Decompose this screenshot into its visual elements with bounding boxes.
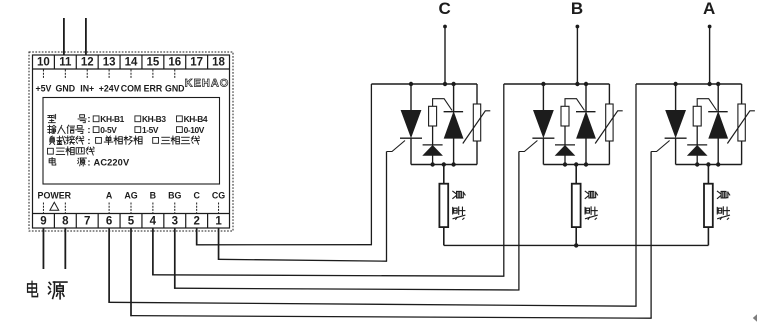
terminal box divider top 6 [163,55,165,69]
node bottom rail load B [574,162,578,166]
svg-text:GND: GND [56,83,76,93]
wire neutral bus joining three loads [444,244,709,246]
node top rail SCR1 anode B [541,82,545,86]
gate lead SCR2 phase A + gate network link [697,99,717,111]
svg-text:10: 10 [37,57,50,69]
node top rail SCR2 cathode A [716,82,720,86]
svg-text:11: 11 [59,57,72,69]
node bottom rail diode B [563,162,567,166]
terminal box divider top 2 [75,55,77,69]
terminal box divider bottom 6 [163,214,165,229]
svg-text:KH-B4: KH-B4 [184,114,208,124]
terminal box divider bottom 8 [207,214,209,229]
gate pin tick terminal 5 [130,203,132,214]
wire terminal 1 CG to gate of phase C [218,228,220,260]
wire top rail phase C [371,83,477,85]
terminal box divider bottom 2 [75,214,77,229]
pin tick terminal 11 [64,70,66,79]
wire phase sense A (top rail to terminal) [635,84,637,306]
wire stub into terminal 12 (IN+) [85,18,87,55]
wire terminal 5 AG to gate of phase A [130,228,132,316]
svg-text:A: A [106,191,113,201]
svg-text:AC220V: AC220V [94,157,130,167]
svg-text:ERR: ERR [144,83,163,93]
phase B feed terminal dot [576,25,580,29]
wire phase sense C (top rail to terminal) [370,84,372,245]
svg-text:IN+: IN+ [80,83,94,93]
wire terminal 9 to supply [42,228,44,269]
wire terminal 4 B to phase B sense [152,228,154,275]
power pin tick terminal 9 [42,203,44,214]
node top rail SCR2 cathode B [584,82,588,86]
svg-text:KH-B1: KH-B1 [100,114,124,124]
svg-text::: : [87,114,90,125]
svg-text:14: 14 [125,57,138,69]
terminal box divider bottom 3 [97,214,99,229]
resistor gate network phase C [429,106,437,126]
varistor diagonal stroke A [727,111,755,144]
gate pin tick terminal 6 [108,203,110,214]
svg-text:6: 6 [106,216,112,228]
spec line5: supply 电源 AC220V [49,157,56,165]
varistor phase C [476,84,478,104]
terminal box divider bottom 7 [185,214,187,229]
diode gate network phase A (cathode bar up) [687,144,707,146]
svg-text:B: B [571,0,583,18]
svg-text:9: 9 [40,216,46,228]
gate lead SCR1 phase C [387,141,406,152]
gate pin tick terminal 2 [196,203,198,214]
wire load takeoff B [575,165,577,184]
wire terminal 8 to supply [64,228,66,269]
pin tick terminal 12 [86,70,88,79]
svg-text:15: 15 [146,57,159,69]
phase A feed terminal dot [708,25,712,29]
svg-text:+5V: +5V [35,83,51,93]
svg-text:1: 1 [215,216,222,228]
load resistor 负载 phase A [704,184,713,227]
svg-text:8: 8 [62,216,69,228]
spec line3: load wiring 负载接线 单相移相 三相三线 [50,136,55,144]
dashed enclosure border of trigger module [29,52,233,231]
svg-text:1-5V: 1-5V [142,125,159,135]
svg-text:5: 5 [128,216,135,228]
bottom terminal strip divider line [33,213,230,215]
node top rail SCR1 anode C [409,82,413,86]
diode gate network phase C (cathode bar up) [423,144,443,146]
node neutral bus phase B [574,243,578,247]
load label 负载 phase A [717,191,729,219]
svg-text::: : [87,157,90,168]
wire terminal 3 BG to gate of phase B [174,228,176,289]
small cursor arrow artifact [753,314,757,322]
terminal box divider bottom 5 [141,214,143,229]
svg-text::: : [87,136,90,147]
node bottom rail load C [442,162,446,166]
load label 负载 phase C [453,191,465,219]
svg-text:16: 16 [168,57,181,69]
node bottom rail diode A [695,162,699,166]
svg-text:+24V: +24V [99,83,120,93]
svg-text:18: 18 [212,57,225,69]
wire phase sense B (top rail to terminal) [503,84,505,276]
spec line4: 三相四线 [48,148,54,154]
terminal box divider top 8 [207,55,209,69]
varistor diagonal stroke C [463,111,491,144]
wire phase C feed [444,27,446,85]
wire top rail phase A [636,83,742,85]
wire top rail phase B [504,83,610,85]
pin tick terminal 16 [174,70,176,79]
svg-text:KEHAO: KEHAO [185,78,230,90]
svg-text:COM: COM [121,83,142,93]
svg-text:12: 12 [81,57,94,69]
thyristor SCR2 phase C (reverse, pointing up) [453,84,455,112]
wire bottom rail phase B [543,164,609,166]
wire resistor to diode C [432,126,434,145]
wire bottom rail phase C [411,164,477,166]
svg-text:CG: CG [212,191,225,201]
pin tick terminal 10 [42,70,44,79]
thyristor SCR1 phase B (forward, pointing down) [542,84,544,110]
top terminal strip divider line [33,68,230,70]
svg-text:KH-B3: KH-B3 [142,114,166,124]
svg-text:BG: BG [168,191,181,201]
gate lead SCR2 phase B + gate network link [565,99,585,111]
node bottom rail SCR2 anode B [584,162,588,166]
gate lead SCR1 phase B [519,141,538,152]
wire gate B to terminal [518,152,520,291]
svg-text:AG: AG [124,191,137,201]
svg-text:17: 17 [190,57,203,69]
thyristor SCR1 phase C (forward, pointing down) [410,84,412,110]
wire resistor to diode A [696,126,698,145]
gate pin tick terminal 3 [174,203,176,214]
spec line1: model 型号 KH-B1/B3/B4 [48,114,56,122]
gate lead SCR1 phase A [651,141,670,152]
resistor gate network phase A [693,106,701,126]
gate pin tick terminal 4 [152,203,154,214]
svg-text:B: B [150,191,156,201]
specification text box [43,98,220,185]
trigger module body outline [33,55,230,228]
load label 负载 phase B [585,191,597,219]
wire terminal 2 C to phase C sense [196,228,198,245]
wire gate A to terminal [650,152,652,319]
warning triangle symbol [50,202,59,210]
terminal box divider top 5 [141,55,143,69]
thyristor SCR2 phase B (reverse, pointing up) [585,84,587,112]
node top rail SCR1 anode A [673,82,677,86]
gate lead SCR2 phase C + gate network link [433,99,453,111]
wire phase B feed [576,27,578,85]
wire phase A feed [709,27,711,85]
svg-text:0-10V: 0-10V [184,125,205,135]
node top rail phase feed C [443,82,447,86]
svg-text:4: 4 [150,216,157,228]
svg-text:7: 7 [84,216,90,228]
node bottom rail SCR2 anode A [716,162,720,166]
pin tick terminal 15 [152,70,154,79]
phase C feed terminal dot [443,25,447,29]
supply label 电源 [28,281,38,296]
pin tick terminal 14 [130,70,132,79]
wire gate C to terminal [386,152,388,262]
node top rail SCR2 cathode C [451,82,455,86]
node top rail phase feed A [707,82,711,86]
wire stub into terminal 11 (GND) [63,18,65,55]
resistor gate network phase B [561,106,569,126]
thyristor SCR2 phase A (reverse, pointing up) [717,84,719,112]
diode gate network phase B (cathode bar up) [555,144,575,146]
wire load A down to neutral bus [707,227,709,245]
svg-text:C: C [193,191,200,201]
load resistor 负载 phase C [439,184,448,227]
load resistor 负载 phase B [572,184,581,227]
thyristor SCR1 phase A (forward, pointing down) [675,84,677,110]
spec line2: input signal 输入信号 0-5V/1-5V/0-10V [48,125,56,133]
svg-text::: : [87,125,90,136]
svg-text:3: 3 [172,216,178,228]
wire resistor to diode B [564,126,566,145]
wire load B down to neutral bus [575,227,577,245]
svg-text:GND: GND [165,83,185,93]
varistor diagonal stroke B [595,111,623,144]
terminal box divider top 1 [53,55,55,69]
terminal box divider top 3 [97,55,99,69]
svg-text:2: 2 [193,216,199,228]
node bottom rail SCR2 anode C [451,162,455,166]
power pin tick terminal 8 [64,203,66,214]
varistor phase B [608,84,610,104]
varistor phase A [741,84,743,104]
wire load takeoff C [443,165,445,184]
svg-text:13: 13 [103,57,116,69]
wire load C down to neutral bus [443,227,445,245]
svg-text:0-5V: 0-5V [100,125,117,135]
node bottom rail load A [706,162,710,166]
svg-text:C: C [438,0,450,18]
terminal box divider bottom 1 [53,214,55,229]
terminal box divider top 7 [185,55,187,69]
wire bottom rail phase A [676,164,742,166]
wire load takeoff A [707,165,709,184]
node top rail phase feed B [575,82,579,86]
node bottom rail diode C [430,162,434,166]
gate pin tick terminal 1 [218,203,220,214]
svg-text:A: A [703,0,715,18]
terminal box divider bottom 4 [119,214,121,229]
pin tick terminal 13 [108,70,110,79]
wire terminal 6 A to phase A sense [108,228,110,303]
svg-text:POWER: POWER [38,191,72,201]
terminal box divider top 4 [119,55,121,69]
